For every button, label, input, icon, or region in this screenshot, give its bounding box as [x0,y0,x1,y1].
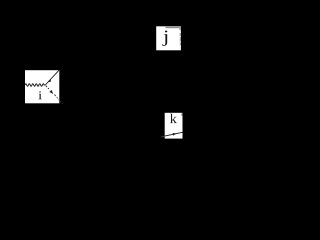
photon wavy line into vertex i [25,84,45,87]
arrowhead on fermion line (pointing toward vertex) [48,79,51,82]
label i [38,91,42,99]
white label box k [165,113,183,139]
faint continuation of k line outside left edge [161,135,165,138]
faint clipped line along top edge of box j [166,27,181,28]
white label box j [156,26,181,50]
dashed scalar line continuation outside box (very faint) [60,101,61,102]
white label box i (vertex sub-diagram) [25,70,59,103]
fermion line across box k [165,132,183,136]
label k [170,114,177,123]
fermion line from upper right into vertex i [45,70,59,85]
label j [162,30,167,45]
faint clipped dashes along right edge of box j [179,28,181,31]
faint gray mark at top-right corner of box k [181,113,182,115]
arrowhead on box k line (pointing right) [173,133,177,136]
arrowhead on dashed line (pointing away from vertex) [49,90,53,94]
dashed scalar line out of vertex i (inside box, fading dashes) [46,86,60,101]
